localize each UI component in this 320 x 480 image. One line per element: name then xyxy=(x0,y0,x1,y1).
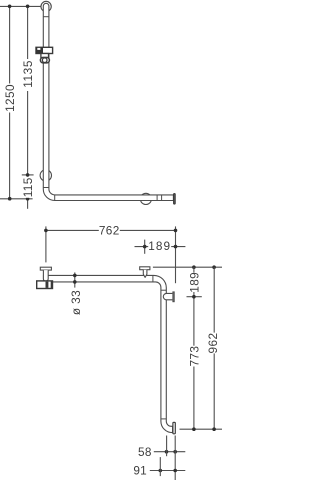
joint line after corner on bar xyxy=(54,195,56,201)
wall mount 1 cap (plan left) xyxy=(40,267,51,270)
label 1250 xyxy=(4,84,16,113)
extension line 91 left xyxy=(159,457,161,476)
svg-text:189: 189 xyxy=(148,239,171,253)
diameter dot top edge xyxy=(73,274,77,278)
extension line top xyxy=(0,5,41,7)
extension line left of 762 xyxy=(45,226,47,262)
svg-text:962: 962 xyxy=(206,333,220,354)
extension line 58 left xyxy=(166,436,168,457)
diameter leader tick xyxy=(74,272,76,287)
dot 773 bottom xyxy=(192,427,196,431)
holder socket circle xyxy=(42,58,47,63)
label 1135 xyxy=(22,59,33,91)
joint line after plan corner xyxy=(161,289,166,291)
tick between 189-2 and 773 xyxy=(187,296,202,298)
wall mount 3 flange xyxy=(173,292,174,302)
svg-text:189: 189 xyxy=(188,272,202,293)
dot 962 bottom xyxy=(212,427,216,431)
dot 1135 bottom xyxy=(26,173,30,177)
L-shaped rail body xyxy=(43,3,173,200)
shower holder xyxy=(40,58,49,63)
extension line plan bottom right xyxy=(180,428,223,430)
dimension 962 line xyxy=(213,267,215,429)
joint line above corner xyxy=(43,187,49,189)
label 962 xyxy=(208,333,219,354)
svg-text:ø 33: ø 33 xyxy=(69,290,83,315)
svg-text:762: 762 xyxy=(99,223,120,237)
dimension 189 upper line xyxy=(135,246,186,248)
svg-text:91: 91 xyxy=(133,464,147,478)
extension line bottom left xyxy=(0,198,33,200)
wall mount 2 stem xyxy=(143,270,147,278)
dot 189-2 top xyxy=(192,265,196,269)
label 115 xyxy=(22,177,33,198)
dimension 762 line xyxy=(46,229,176,231)
dimension 1135 line xyxy=(27,6,29,175)
dimension 91 line xyxy=(150,470,186,472)
dot 962 top xyxy=(212,265,216,269)
joint line above bottom bend xyxy=(161,418,166,420)
label 189-2 xyxy=(188,273,199,292)
end flange bottom xyxy=(173,422,175,433)
joint line bar sleeve left xyxy=(156,195,158,201)
joint line before plan corner xyxy=(152,275,154,282)
label 762 xyxy=(99,225,120,236)
dot 762 left xyxy=(44,229,48,233)
dot 762 right xyxy=(174,229,178,233)
svg-text:1250: 1250 xyxy=(3,84,17,112)
svg-text:1135: 1135 xyxy=(21,60,35,88)
svg-text:115: 115 xyxy=(21,177,35,197)
wall mount circle on horizontal bar xyxy=(140,193,151,204)
ring at rail top xyxy=(41,1,51,11)
wall mount 3 stem (right leg) xyxy=(163,293,172,299)
extension line plan top right xyxy=(153,266,222,268)
dot 91 right xyxy=(173,469,177,473)
joint line bar sleeve right xyxy=(161,195,163,201)
end flange right xyxy=(174,194,175,204)
extension line wall face xyxy=(174,436,176,480)
dot 189 upper left xyxy=(143,245,147,249)
slider neck xyxy=(41,54,49,58)
dimension 1250 line xyxy=(9,6,11,198)
tick at 1135 end xyxy=(22,174,34,176)
dot 1250 bottom xyxy=(8,197,12,201)
wall mount circle on vertical rail xyxy=(40,170,51,181)
dimension 115 line xyxy=(27,175,29,209)
label 773 xyxy=(188,346,199,367)
diameter dot bottom edge xyxy=(73,280,77,284)
wall mount 2 cap xyxy=(140,267,150,270)
holder block dark band xyxy=(46,282,49,288)
slider button xyxy=(37,48,40,50)
holder block (plan) xyxy=(37,281,53,289)
dimension 58 line xyxy=(154,451,186,453)
plan L-bar body xyxy=(44,275,173,432)
dot 58 right xyxy=(173,450,177,454)
dot 189 upper right xyxy=(174,245,178,249)
wall mount 1 stem xyxy=(43,270,48,281)
dot 58 left xyxy=(165,450,169,454)
extension line right of 762 xyxy=(175,226,177,283)
label 189 upper xyxy=(148,241,171,251)
svg-text:773: 773 xyxy=(187,346,201,367)
slider body xyxy=(36,47,53,53)
dot 189-2 bottom xyxy=(192,295,196,299)
holder block right edge xyxy=(51,281,53,288)
svg-text:58: 58 xyxy=(138,445,152,459)
joint line below ring xyxy=(43,16,49,18)
dot 115 bottom xyxy=(26,197,30,201)
dot 1135 top xyxy=(26,5,30,9)
tick 189 upper left xyxy=(144,240,146,254)
slider left block xyxy=(36,47,43,53)
dimension 189-2 and 773 line xyxy=(193,267,195,429)
dot 91 left xyxy=(159,469,163,473)
dot 1250 top xyxy=(8,5,12,9)
